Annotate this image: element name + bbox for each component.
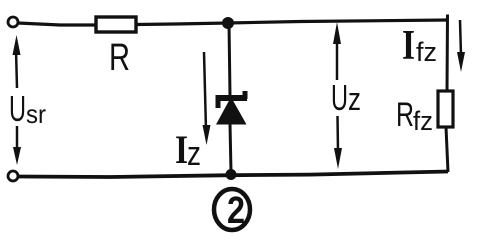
svg-text:fz: fz [413, 106, 433, 136]
wire bottom [18, 172, 448, 178]
voltage arrow Uz [333, 22, 342, 169]
label Ifz [402, 23, 437, 69]
svg-text:U: U [331, 77, 348, 118]
wire top left segment [18, 23, 96, 25]
svg-text:U: U [9, 88, 26, 129]
resistor Rfz [438, 91, 453, 127]
terminal top-left [8, 17, 18, 27]
svg-text:sr: sr [26, 99, 46, 129]
wire top right segment [136, 20, 448, 25]
label Uz [331, 77, 361, 118]
wire right top [446, 15, 450, 93]
node junction bottom [226, 169, 237, 180]
svg-text:z: z [187, 135, 201, 173]
svg-text:R: R [109, 37, 130, 79]
wire zener branch top [229, 23, 230, 96]
svg-text:2: 2 [227, 190, 245, 232]
voltage arrow Usr top [13, 35, 21, 88]
zener diode [216, 91, 248, 125]
voltage arrow Usr bottom [13, 126, 21, 165]
figure number 2 [214, 189, 250, 232]
svg-text:I: I [402, 23, 415, 69]
terminal bottom-left [8, 171, 18, 181]
current arrow Iz [203, 52, 211, 145]
label Rfz [396, 96, 433, 136]
label Usr [9, 88, 46, 129]
node junction top [222, 17, 234, 29]
label Iz [175, 127, 201, 173]
current arrow Ifz [457, 20, 465, 72]
wire right bottom [446, 127, 448, 172]
svg-text:z: z [348, 81, 361, 117]
svg-text:fz: fz [416, 37, 437, 67]
resistor R [96, 17, 136, 32]
wire zener branch bottom [230, 124, 231, 172]
svg-text:R: R [396, 96, 414, 134]
